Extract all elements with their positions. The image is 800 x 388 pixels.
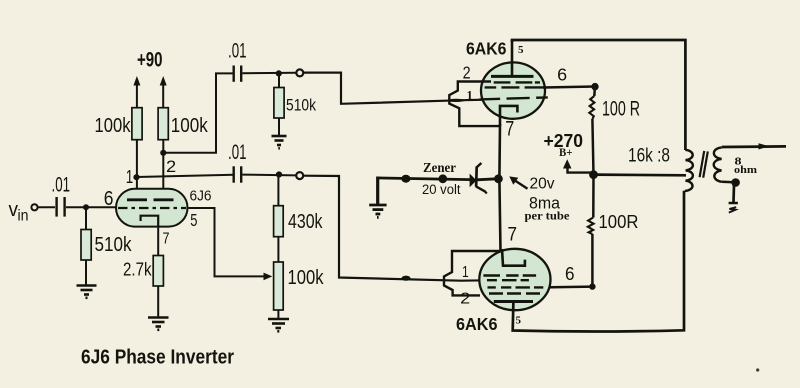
wire Vin to C1: [38, 206, 55, 208]
resistor R9 100R zigzag: [588, 211, 639, 234]
ground under R2: [148, 318, 169, 330]
input terminal Vin: [31, 204, 37, 210]
resistor R4 100k right plate load: [158, 108, 208, 140]
wire pin1 node to C3 lower coupling: [137, 175, 235, 177]
svg-text:5: 5: [190, 210, 197, 230]
wire R3 to 6J6 plate pin 1: [136, 140, 138, 200]
arrow into divider tap: [264, 273, 273, 281]
upper 6AK6 dashed row B: [485, 86, 544, 88]
svg-text:.01: .01: [228, 40, 247, 63]
node B+ junction: [589, 170, 598, 179]
lower 6AK6 grid dashed row: [487, 279, 529, 281]
+90 arrow left: [133, 76, 140, 108]
label B+: [559, 147, 573, 159]
wire lower coupling to lower 6AK6 grid: [303, 176, 487, 281]
upper 6AK6 dashed row A: [494, 81, 540, 83]
upper 6AK6 grid bracket pins 2-7: [449, 82, 499, 127]
capacitor C2 .01 top: [228, 40, 247, 82]
+90 arrow right: [160, 76, 167, 108]
lower 6AK6 dashed row 1: [483, 274, 536, 276]
svg-text:510k: 510k: [95, 233, 133, 256]
svg-text:+90: +90: [137, 49, 163, 72]
label 6AK6 lower: [456, 314, 498, 334]
wire pin2 node to C2 top coupling: [163, 73, 234, 152]
resistor R7 100k feedback divider: [274, 262, 325, 319]
power +90 label: [137, 49, 163, 72]
terminal circle lower: [296, 172, 303, 179]
svg-text:100k: 100k: [171, 114, 209, 137]
resistor R3 100k left plate load: [95, 108, 143, 140]
label upper pin 1: [467, 88, 473, 102]
ground under R1: [77, 286, 97, 298]
pointer arrow 20v: [509, 176, 527, 188]
label 20 volt: [422, 182, 461, 197]
wire B+ junction to resistor R9: [592, 175, 595, 218]
label lower pin 5: [516, 315, 522, 327]
svg-text:20 volt: 20 volt: [422, 182, 461, 197]
wire node to resistor R8: [593, 87, 596, 96]
wire upper pin 6 screen to node: [543, 87, 595, 88]
lower 6AK6 dashed row 4: [489, 292, 540, 294]
svg-text:5: 5: [518, 44, 524, 56]
terminal circle top: [296, 69, 303, 76]
node screen upper: [591, 83, 598, 90]
transformer T1 secondary coil: [714, 147, 722, 181]
svg-text:ohm: ohm: [734, 164, 757, 176]
svg-text:B+: B+: [559, 147, 573, 159]
wire secondary top output: [722, 145, 786, 148]
svg-text:6J6 Phase Inverter: 6J6 Phase Inverter: [81, 347, 234, 369]
label 8ma: [529, 194, 561, 213]
label per tube: [525, 209, 571, 223]
wire upper cathode to rail: [498, 124, 501, 179]
wire R6 to R7: [277, 237, 279, 262]
lower 6AK6 dashed row 3: [488, 286, 544, 288]
label +270: [544, 131, 584, 151]
resistor R6 430k: [274, 174, 323, 236]
wire upper plate rail to transformer top: [512, 40, 685, 150]
label Vin: [9, 199, 29, 225]
label 8 ohm: [734, 156, 757, 176]
node pin2 junction: [160, 150, 166, 156]
output arrow on secondary wire: [759, 143, 770, 149]
wire R9 to lower screen node: [591, 234, 594, 287]
ground for zener: [369, 177, 386, 218]
wire R8 to B+ junction: [592, 119, 593, 175]
svg-text:510k: 510k: [286, 96, 316, 115]
svg-text:1: 1: [462, 264, 469, 281]
stray ink speck: [756, 368, 759, 371]
svg-text:6J6: 6J6: [190, 189, 212, 205]
resistor R2 2.7k cathode: [123, 227, 163, 318]
6AK6 lower envelope: [479, 249, 550, 310]
capacitor C3 .01 lower: [228, 141, 247, 183]
wire secondary bottom to ground node: [722, 181, 734, 184]
label lower pin 7: [508, 225, 518, 246]
node on zener wire 2: [438, 174, 447, 183]
upper 6AK6 plate: [491, 75, 534, 78]
label upper pin 7: [505, 117, 514, 140]
wire B+ junction to primary center tap: [594, 173, 687, 176]
transformer T1 primary coil: [685, 150, 693, 191]
zener diode D1 20 volt: [470, 163, 487, 194]
label 6J6 pin 2: [166, 157, 176, 176]
ink blob on lower grid wire: [402, 276, 411, 281]
wire R4 to 6J6 plate pin 2: [162, 140, 164, 200]
svg-text:per tube: per tube: [525, 209, 571, 223]
wire C1 to 6J6 grid pin 6: [66, 206, 117, 208]
ground for secondary: [729, 185, 738, 213]
ground under R7: [268, 319, 289, 331]
label 6J6 pin 7: [163, 231, 170, 248]
svg-text:1: 1: [467, 88, 473, 102]
6J6 cathode: [141, 216, 159, 227]
svg-text:2: 2: [463, 63, 471, 83]
svg-text:2: 2: [460, 291, 470, 308]
svg-text:6: 6: [557, 65, 567, 85]
svg-text:100k: 100k: [95, 114, 132, 137]
label 6J6 pin 6: [104, 188, 114, 210]
svg-text:6AK6: 6AK6: [466, 39, 507, 59]
node junction C2/R5: [276, 70, 282, 76]
svg-text:6: 6: [104, 188, 114, 210]
svg-text:20v: 20v: [530, 175, 555, 192]
svg-text:in: in: [18, 208, 29, 225]
svg-text:100k: 100k: [288, 267, 325, 289]
wire C2 to terminal circle: [242, 72, 296, 75]
svg-text:7: 7: [163, 231, 170, 248]
resistor R8 100 R zigzag: [589, 96, 640, 121]
lower 6AK6 plate: [494, 300, 533, 303]
upper 6AK6 pin 5 lead: [511, 40, 514, 76]
wire lower pin 6 screen to node: [543, 285, 592, 288]
wire C3 to terminal circle lower: [242, 174, 296, 177]
node pin1 junction: [133, 174, 139, 180]
wire lower plate rail to transformer bottom: [513, 191, 684, 332]
svg-text:5: 5: [516, 315, 522, 327]
tube V1 6J6 envelope: [116, 189, 188, 227]
6J6 plate 1: [127, 198, 147, 201]
label 6J6 type: [190, 189, 212, 205]
svg-text:6: 6: [565, 264, 575, 284]
node screen lower: [589, 283, 595, 289]
label lower pin 2: [460, 291, 470, 308]
wire junction to lower cathode: [499, 179, 500, 251]
svg-text:16k :8: 16k :8: [628, 144, 670, 166]
capacitor C1 .01 input coupling: [52, 174, 71, 217]
svg-text:.01: .01: [228, 141, 247, 164]
label 20v: [530, 175, 555, 192]
svg-text:100 R: 100 R: [602, 98, 640, 121]
label 16k :8: [628, 144, 670, 166]
svg-text:7: 7: [508, 225, 518, 246]
svg-text:.01: .01: [52, 174, 71, 197]
svg-text:7: 7: [505, 117, 514, 140]
svg-text:2: 2: [166, 157, 176, 176]
label upper pin 5: [518, 44, 524, 56]
label 6J6 pin 5: [190, 210, 197, 230]
ground under R5: [272, 136, 287, 148]
node secondary ground: [731, 178, 740, 187]
label Zener: [423, 161, 456, 176]
wire top coupling to upper 6AK6 grid: [303, 73, 487, 104]
6J6 grid dashed line: [118, 207, 186, 209]
svg-text:100R: 100R: [599, 211, 639, 232]
node junction C3/R6: [276, 171, 282, 177]
resistor R5 510k top: [274, 73, 316, 136]
node A junction C1/510k: [83, 204, 89, 210]
wire zener to cathode junction: [477, 179, 497, 180]
resistor R1 510k grid leak: [81, 207, 132, 285]
label 6AK6 upper: [466, 39, 507, 59]
label lower pin 1: [462, 264, 469, 281]
wire ground to zener: [377, 178, 471, 180]
node cathode junction: [494, 174, 503, 183]
lower 6AK6 grid bracket pins 2-7: [444, 251, 502, 295]
label lower pin 6: [565, 264, 575, 284]
label upper pin 6: [557, 65, 567, 85]
node on zener wire 1: [401, 175, 410, 183]
ink blob on upper grid wire: [447, 99, 465, 102]
upper 6AK6 grid dashed row: [480, 97, 548, 99]
wire 6J6 pin 5 to divider tap: [189, 208, 266, 276]
label 6J6 pin 1: [126, 167, 134, 187]
B+ feed arrow: [563, 159, 593, 172]
svg-text:6AK6: 6AK6: [456, 314, 498, 334]
label upper pin 2: [463, 63, 471, 83]
svg-text:Zener: Zener: [423, 161, 456, 176]
upper 6AK6 cathode: [500, 106, 517, 126]
transformer core lines: [700, 151, 708, 178]
title 6J6 Phase Inverter: [81, 347, 234, 369]
lower 6AK6 cathode: [502, 249, 525, 266]
svg-text:2.7k: 2.7k: [123, 259, 152, 280]
svg-text:1: 1: [126, 167, 134, 187]
svg-text:430k: 430k: [288, 210, 323, 233]
6AK6 upper envelope: [481, 62, 545, 118]
6J6 plate 2: [154, 198, 174, 201]
